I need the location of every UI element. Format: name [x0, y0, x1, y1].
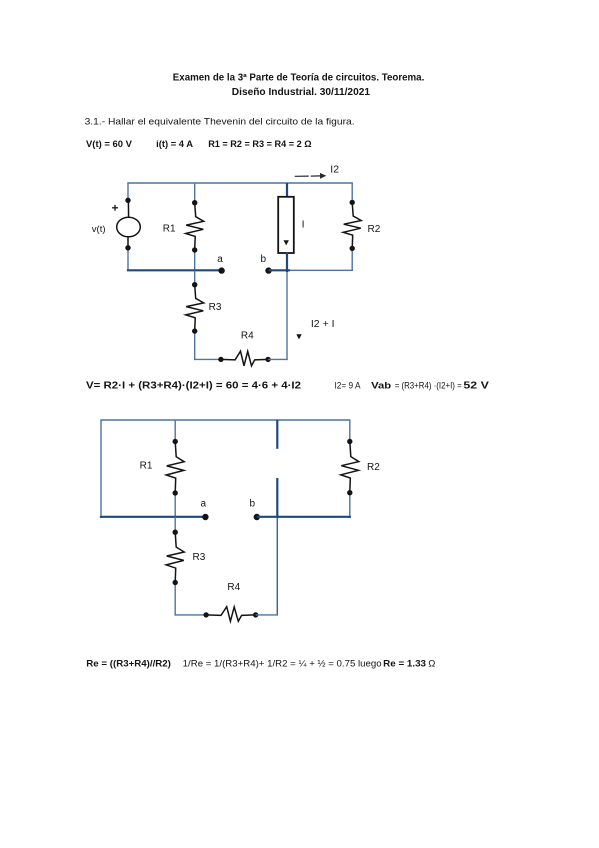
node a	[217, 254, 225, 274]
svg-text:3.1.- Hallar el equivalente Th: 3.1.- Hallar el equivalente Thevenin del…	[85, 116, 355, 127]
svg-text:R3: R3	[209, 302, 222, 313]
svg-text:v(t): v(t)	[92, 224, 106, 235]
wire: node b rail to R2 (circuit 2, dark)	[257, 516, 351, 518]
svg-text:b: b	[261, 254, 267, 265]
current arrow I2	[295, 164, 340, 179]
svg-text:Examen de la 3ª Parte de Teorí: Examen de la 3ª Parte de Teoría de circu…	[173, 72, 425, 83]
wire: circuit 2 bottom rail right	[256, 614, 278, 616]
svg-text:Re = 1.33: Re = 1.33	[383, 658, 426, 669]
wire: circuit 2 right rail lower	[349, 493, 351, 518]
wire: node b to current-source branch (dark)	[269, 269, 291, 271]
wire: circuit 2 bottom rail left	[175, 614, 207, 616]
svg-text:i(t) = 4 A: i(t) = 4 A	[156, 139, 193, 150]
resistor R1 (circuit 2)	[140, 420, 185, 517]
svg-text:I2 + I: I2 + I	[311, 318, 335, 330]
current arrow I2+I	[296, 318, 334, 339]
svg-text:52 V: 52 V	[463, 380, 489, 391]
svg-text:R2: R2	[367, 462, 380, 473]
svg-text:b: b	[250, 498, 256, 509]
resistor R2	[343, 183, 381, 271]
svg-text:Vab: Vab	[371, 380, 391, 391]
wire: current-source branch to R2 branch	[290, 269, 353, 271]
svg-text:1/Re = 1/(R3+R4)+ 1/R2 = ¼ + ½: 1/Re = 1/(R3+R4)+ 1/R2 = ¼ + ½ = 0.75 lu…	[183, 658, 382, 669]
wire: stub down to bottom rail	[276, 517, 278, 616]
wire: node a rail (dark)	[127, 269, 222, 271]
node b (circuit 2)	[250, 498, 261, 520]
svg-text:R4: R4	[241, 331, 254, 342]
svg-text:Diseño Industrial. 30/11/2021: Diseño Industrial. 30/11/2021	[232, 87, 371, 98]
open stub upper (removed source)	[276, 420, 278, 449]
wire: circuit 2 left rail	[100, 420, 102, 518]
wire: circuit 2 right rail upper	[349, 420, 351, 442]
wire: circuit 1 top rail	[127, 182, 353, 184]
svg-text:R1 = R2 = R3 = R4 = 2 Ω: R1 = R2 = R3 = R4 = 2 Ω	[208, 139, 312, 150]
wire: circuit 2 top rail	[100, 419, 350, 421]
svg-text:I: I	[302, 219, 305, 231]
svg-text:R1: R1	[140, 460, 153, 471]
resistor R1	[163, 183, 204, 270]
svg-text:Re = ((R3+R4)//R2): Re = ((R3+R4)//R2)	[86, 658, 171, 669]
svg-text:I2= 9 A: I2= 9 A	[335, 380, 362, 391]
svg-text:V= R2·I + (R3+R4)·(I2+I) = 60: V= R2·I + (R3+R4)·(I2+I) = 60 = 4·6 + 4·…	[86, 380, 301, 391]
wire: node a rail (circuit 2, dark)	[100, 516, 205, 518]
svg-text:R4: R4	[227, 582, 240, 593]
wire: circuit 1 bottom rail	[194, 358, 221, 360]
svg-text:R1: R1	[163, 224, 176, 235]
current source I	[278, 183, 304, 272]
svg-text:Ω: Ω	[428, 658, 435, 669]
node b	[261, 254, 272, 274]
resistor R3 (circuit 2)	[166, 517, 206, 616]
svg-text:I2: I2	[330, 164, 339, 176]
resistor R3	[186, 270, 222, 360]
voltage source v(t)	[92, 183, 141, 270]
svg-text:R2: R2	[368, 224, 381, 235]
wire: current source down to bottom rail	[286, 272, 288, 360]
svg-text:a: a	[217, 254, 223, 265]
wire: R4 to current-source branch	[268, 358, 288, 360]
resistor R2 (circuit 2)	[341, 439, 380, 496]
svg-text:a: a	[201, 498, 207, 509]
resistor R4	[218, 331, 271, 366]
svg-text:R3: R3	[193, 552, 206, 563]
svg-text:= (R3+R4) ·(I2+I) =: = (R3+R4) ·(I2+I) =	[395, 380, 462, 390]
node a (circuit 2)	[201, 498, 209, 520]
resistor R4 (circuit 2)	[203, 582, 258, 621]
svg-text:V(t) = 60 V: V(t) = 60 V	[86, 139, 133, 150]
open stub lower (removed source)	[276, 478, 278, 517]
